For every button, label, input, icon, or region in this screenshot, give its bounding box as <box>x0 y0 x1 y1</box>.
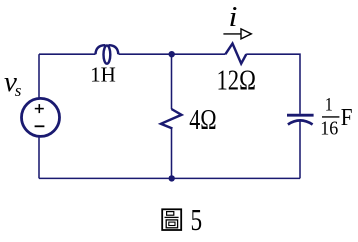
wire top-right segment and right corner down to capacitor <box>246 54 300 114</box>
svg-text:1: 1 <box>325 93 333 115</box>
capacitor bottom curved plate <box>288 120 313 124</box>
plus sign of source <box>35 104 44 113</box>
minus sign of source <box>35 125 45 127</box>
wire top-left segment <box>39 53 96 55</box>
svg-text:s: s <box>15 81 22 100</box>
resistor 12ohm zigzag <box>225 44 246 64</box>
label vs <box>4 66 22 100</box>
wire left branch top <box>38 54 40 98</box>
wire bottom <box>39 177 300 179</box>
wire middle branch upper <box>171 54 173 109</box>
resistor 4ohm zigzag <box>161 109 182 129</box>
wire left branch bottom <box>38 136 40 178</box>
svg-text:i: i <box>229 1 238 33</box>
svg-text:5: 5 <box>190 203 202 237</box>
wire right branch below capacitor <box>299 121 301 179</box>
inductor L 1H <box>96 45 119 64</box>
wire middle branch lower <box>171 129 173 179</box>
svg-text:16: 16 <box>320 117 338 139</box>
junction dot top node <box>169 51 175 57</box>
svg-text:F: F <box>341 104 353 131</box>
current arrow <box>223 29 251 39</box>
caption glyph TU (figure) drawn <box>162 209 181 230</box>
voltage source circle <box>22 98 60 136</box>
svg-text:12Ω: 12Ω <box>216 64 255 96</box>
junction dot bottom node <box>169 175 175 181</box>
wire top-middle segment <box>119 53 226 55</box>
svg-text:4Ω: 4Ω <box>189 103 216 136</box>
capacitor top plate <box>287 114 314 117</box>
label 1/16 F fraction <box>320 93 352 139</box>
svg-text:1H: 1H <box>90 63 116 87</box>
